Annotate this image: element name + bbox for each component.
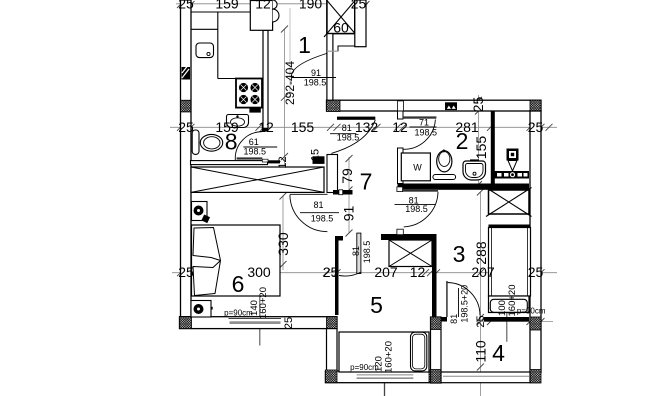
svg-text:60: 60 [333, 20, 349, 36]
svg-text:160+20: 160+20 [258, 287, 269, 319]
svg-text:81: 81 [351, 246, 361, 256]
svg-text:W: W [413, 163, 422, 173]
svg-text:300: 300 [247, 264, 271, 280]
svg-text:25: 25 [178, 119, 194, 135]
svg-text:25: 25 [351, 0, 367, 12]
svg-text:p=90cm: p=90cm [517, 307, 546, 316]
svg-text:330: 330 [275, 232, 291, 256]
svg-text:4: 4 [492, 340, 505, 366]
svg-text:81: 81 [449, 314, 459, 324]
svg-text:25: 25 [178, 0, 194, 12]
svg-text:25: 25 [283, 317, 295, 329]
svg-text:25: 25 [323, 264, 339, 280]
svg-text:207: 207 [374, 264, 398, 280]
svg-text:198.5: 198.5 [311, 213, 334, 223]
svg-text:15: 15 [310, 149, 322, 161]
svg-text:25: 25 [470, 97, 486, 113]
svg-text:8: 8 [225, 129, 238, 155]
svg-text:91: 91 [311, 68, 321, 78]
svg-text:292-404: 292-404 [283, 61, 297, 105]
svg-text:71: 71 [419, 118, 429, 128]
svg-text:3: 3 [453, 241, 466, 267]
svg-text:5: 5 [370, 292, 383, 318]
svg-text:2: 2 [456, 128, 469, 154]
svg-text:198.5+20: 198.5+20 [460, 285, 470, 323]
svg-text:12: 12 [255, 0, 271, 12]
svg-text:79: 79 [339, 168, 355, 184]
svg-text:25: 25 [528, 264, 544, 280]
svg-text:6: 6 [232, 271, 245, 297]
svg-text:110: 110 [473, 340, 489, 363]
svg-text:198.5: 198.5 [405, 204, 428, 214]
svg-text:160+20: 160+20 [384, 341, 395, 373]
svg-text:155: 155 [291, 119, 315, 135]
svg-text:207: 207 [471, 264, 495, 280]
svg-text:81: 81 [313, 200, 323, 210]
svg-text:159: 159 [215, 0, 239, 12]
svg-text:25: 25 [178, 264, 194, 280]
svg-text:155: 155 [473, 136, 489, 160]
svg-text:198.5: 198.5 [415, 128, 438, 138]
svg-text:12: 12 [410, 264, 426, 280]
svg-text:25: 25 [528, 119, 544, 135]
svg-text:91: 91 [341, 206, 357, 222]
svg-text:25: 25 [475, 315, 487, 327]
svg-text:12: 12 [258, 119, 274, 135]
svg-text:198.5: 198.5 [304, 78, 327, 88]
svg-text:12: 12 [392, 119, 408, 135]
svg-text:81: 81 [342, 123, 352, 133]
svg-text:1: 1 [298, 32, 311, 58]
svg-text:198.5: 198.5 [337, 133, 360, 143]
svg-text:190: 190 [299, 0, 323, 12]
svg-text:160+20: 160+20 [507, 285, 518, 317]
svg-text:12: 12 [277, 156, 289, 168]
svg-text:198.5: 198.5 [244, 147, 267, 157]
svg-text:288: 288 [473, 241, 489, 265]
svg-text:7: 7 [360, 169, 373, 195]
svg-text:198.5: 198.5 [362, 241, 372, 264]
